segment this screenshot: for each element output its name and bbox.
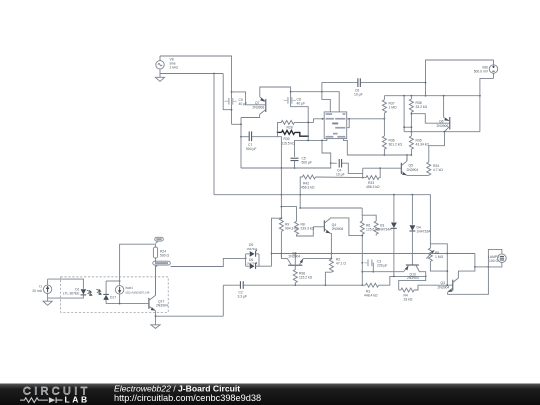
wire emitter node to 555 tops: [291, 92, 340, 112]
capacitor C2: [238, 281, 248, 299]
net flag Collector: [153, 261, 171, 295]
svg-text:D17: D17: [110, 296, 116, 300]
rail y131.7: [404, 131, 480, 133]
ground under I1: [43, 298, 52, 305]
photodiode D17: [103, 281, 116, 304]
wire control: [343, 139, 411, 155]
svg-text:40 µF: 40 µF: [297, 102, 306, 106]
svg-text:10 µF: 10 µF: [354, 93, 363, 97]
wire reset feed: [322, 92, 330, 112]
wire link y127.2: [404, 126, 411, 128]
net flag wire from Collector label: [171, 258, 246, 266]
top rail y95.7: [384, 95, 480, 97]
capacitor C9 (disabled grey): [225, 98, 248, 106]
svg-text:456.3 kΩ: 456.3 kΩ: [301, 186, 315, 190]
svg-text:2N3904: 2N3904: [438, 286, 450, 290]
svg-text:1 MΩ: 1 MΩ: [389, 106, 398, 110]
svg-text:D9: D9: [249, 243, 253, 247]
wire C2 rail to R3: [243, 284, 365, 286]
wire I1 to LED anode: [48, 279, 84, 289]
svg-text:2N3904: 2N3904: [156, 304, 168, 308]
svg-text:1N4734A: 1N4734A: [378, 228, 393, 232]
ground under Q17: [151, 316, 160, 328]
wire Q17 emitter down: [155, 311, 157, 317]
svg-text:Q6: Q6: [439, 119, 444, 123]
resistor R28: [280, 120, 296, 129]
svg-text:500 µF: 500 µF: [302, 161, 312, 165]
svg-text:D6: D6: [249, 258, 253, 262]
svg-text:239.3 kΩ: 239.3 kΩ: [301, 227, 315, 231]
resistor R34: [427, 162, 443, 175]
svg-text:33.2 kΩ: 33.2 kΩ: [416, 105, 428, 109]
resistor R6: [360, 221, 380, 285]
svg-text:10 µF: 10 µF: [336, 173, 345, 177]
svg-text:47.1 Ω: 47.1 Ω: [336, 262, 346, 266]
svg-text:R28: R28: [287, 126, 293, 130]
wire long vertical x281: [280, 168, 282, 218]
svg-text:456.3 kΩ: 456.3 kΩ: [366, 185, 380, 189]
dashed optocoupler box: [61, 277, 169, 312]
wire long rail y194.7 with pot feeder drop: [214, 195, 447, 286]
wire D17 cathode to riser: [106, 280, 120, 282]
resistor R30 (bold selected): [278, 130, 309, 145]
diode D6 zener: [246, 258, 259, 269]
svg-text:2N3906: 2N3906: [437, 124, 449, 128]
wire trigger: [314, 119, 325, 123]
LED D1: [63, 287, 92, 295]
svg-text:226 µF: 226 µF: [377, 264, 387, 268]
svg-text:1N4734A: 1N4734A: [247, 262, 258, 266]
wire R3 right jog to Q10 collector node: [379, 276, 426, 285]
wire R9 top link: [272, 218, 282, 266]
svg-text:43.34 kΩ: 43.34 kΩ: [416, 143, 430, 147]
wire mid rail y208: [300, 207, 362, 209]
wire rail through C7: [241, 136, 249, 138]
wire +5 riser to R24 top: [120, 244, 156, 281]
resistor R36: [382, 136, 402, 155]
svg-text:33 kΩ: 33 kΩ: [404, 298, 413, 302]
resistor R7: [361, 221, 378, 237]
transistor Q5 NPN: [401, 161, 418, 175]
wire Q2 emitter to R2 top: [303, 257, 331, 259]
wire left drop to long rail: [213, 74, 215, 195]
svg-text:1N4734A: 1N4734A: [247, 247, 258, 251]
wire Q6 emitter riser: [443, 96, 445, 118]
wire jog via x223: [223, 74, 231, 110]
svg-text:Q7: Q7: [255, 101, 260, 105]
svg-text:40 µF: 40 µF: [239, 102, 248, 106]
wire Q3 collector riser to lamp node: [458, 254, 475, 279]
node dot: [299, 207, 301, 209]
resistor R37: [382, 96, 397, 136]
wire R38 jog to Q6 base: [411, 114, 449, 124]
diode D3 zener: [378, 195, 397, 277]
wire Q10 collector S-path to R4: [399, 271, 426, 290]
voltage source V80: [474, 60, 498, 78]
wire discharge to threshold strap: [347, 119, 350, 128]
svg-text:LAB: LAB: [65, 395, 90, 405]
wire C7 rail corner down: [278, 137, 282, 168]
node dots on long rail: [299, 194, 301, 196]
wire Q5 emitter rail: [407, 174, 429, 176]
wire R28 right to trigger riser: [296, 121, 314, 123]
wire to Q7 base: [232, 92, 263, 105]
wire jog from x231 to x241: [232, 123, 242, 125]
wire Q10 emitter rail: [362, 271, 404, 273]
wire V8 top rail: [160, 56, 232, 124]
svg-text:115.2 kΩ: 115.2 kΩ: [299, 276, 313, 280]
wire base rail of Q17: [106, 303, 146, 305]
wire V80 top branch: [426, 60, 494, 96]
wire C2 rail drop to y316: [222, 285, 224, 316]
svg-text:1N4733A: 1N4733A: [417, 230, 432, 234]
wire Q3 emitter return to lamp bottom: [448, 267, 489, 294]
svg-text:Electrowebb22 / J-Board Circui: Electrowebb22 / J-Board Circuit: [114, 384, 240, 394]
svg-text:448.4 kΩ: 448.4 kΩ: [364, 294, 378, 298]
lamp LAMP1: [475, 249, 506, 267]
capacitor C4: [336, 159, 345, 177]
svg-text:LTL-307EE: LTL-307EE: [63, 292, 80, 296]
transistor Q3 NPN: [438, 278, 459, 292]
svg-text:2N3906: 2N3906: [253, 106, 265, 110]
svg-text:I(D1.nA)/50/100*1.148: I(D1.nA)/50/100*1.148: [126, 292, 150, 295]
wire LED cathode return: [48, 296, 84, 299]
photodiode D17 arrows: [96, 289, 101, 295]
capacitor C3 (disabled grey): [364, 260, 387, 268]
svg-text:1 MΩ: 1 MΩ: [435, 255, 444, 259]
wire x404 drop: [403, 96, 405, 132]
wire V8 bottom rail: [160, 73, 223, 75]
wire V80 bottom to rail: [480, 78, 494, 131]
wire R34 hanger: [429, 132, 445, 162]
svg-text:4.7 kΩ: 4.7 kΩ: [433, 168, 443, 172]
svg-text:2N3904: 2N3904: [407, 276, 419, 280]
net flag +5V: [155, 237, 164, 247]
resistor R24 (box style): [153, 247, 169, 262]
capacitor C7: [246, 131, 256, 151]
wire mid rail down to R6/R7 tops: [362, 208, 376, 221]
svg-text:500 µF: 500 µF: [246, 147, 256, 151]
resistor R8: [281, 206, 315, 236]
svg-text:2N3904: 2N3904: [332, 227, 344, 231]
wire output: [295, 139, 327, 157]
svg-text:500 Ω: 500 Ω: [160, 254, 170, 258]
wire C4 right to Q5 base: [342, 163, 363, 173]
wire long horizontal y253.5: [272, 253, 475, 255]
resistor R9: [279, 218, 299, 258]
wire diode pair right link: [258, 254, 260, 266]
transistor Q2: [281, 252, 303, 266]
wire Q7 collector down: [241, 114, 260, 117]
svg-text:3.3 µF: 3.3 µF: [238, 295, 248, 299]
transistor Q10 PNP: [404, 265, 419, 280]
wire C6 right to V80 drop: [361, 82, 426, 84]
wire R42 to R33: [316, 176, 366, 179]
wire emitter rail y316: [156, 315, 224, 317]
ground under V8: [155, 74, 164, 82]
node dot: [213, 73, 215, 75]
diode D4 zener: [410, 195, 432, 265]
resistor R33: [366, 168, 380, 189]
svg-text:1 kHz: 1 kHz: [170, 66, 179, 70]
diode D9 zener: [246, 243, 259, 257]
svg-text:http://circuitlab.com/cenbc398: http://circuitlab.com/cenbc398e9d38: [114, 393, 261, 403]
svg-text:2N3904: 2N3904: [407, 168, 419, 172]
transistor Q17 NPN: [146, 295, 168, 310]
voltage source V8 sine: [156, 56, 179, 74]
svg-text:Q5: Q5: [409, 164, 414, 168]
wire Q17 collector riser: [155, 266, 157, 296]
svg-text:500.0 mV: 500.0 mV: [474, 70, 489, 74]
svg-text:301.2 kΩ: 301.2 kΩ: [389, 143, 403, 147]
wire drop to mid rail: [299, 195, 301, 208]
svg-text:100 Ω: 100 Ω: [489, 259, 499, 263]
svg-text:115.5 kΩ: 115.5 kΩ: [282, 141, 296, 145]
transistor Q4 NPN: [313, 218, 343, 233]
wire Q7 emitter up: [260, 87, 308, 140]
capacitor C8 (disabled grey): [284, 97, 306, 106]
svg-text:Ivar1: Ivar1: [126, 286, 134, 290]
wire discharge to R37/R36 junction: [349, 118, 384, 120]
resistor R35: [409, 136, 429, 155]
resistor R38: [409, 96, 427, 136]
wire C6 branch up: [322, 83, 358, 92]
wire output to C4 stair: [322, 140, 331, 163]
resistor R3: [364, 283, 379, 298]
svg-text:20 mA: 20 mA: [32, 289, 42, 293]
wire C2 rail left segment: [223, 284, 240, 286]
capacitor C5: [291, 157, 312, 165]
wire Q4 collector loop to R6/R7 bottoms: [330, 218, 362, 236]
dependent source Ivar1: [115, 281, 150, 304]
transistor Q7 PNP: [253, 97, 266, 115]
resistor R96: [293, 265, 312, 285]
wire rail y168: [241, 163, 337, 168]
current source I1: [32, 279, 51, 298]
resistor R4: [399, 285, 453, 302]
wire Q4 emitter down to R2: [330, 233, 331, 259]
IC 555 box: [324, 112, 347, 139]
svg-text:2N3904: 2N3904: [289, 255, 301, 259]
transistor Q6 PNP: [437, 117, 450, 132]
resistor R42: [300, 175, 315, 195]
capacitor C6: [354, 78, 363, 96]
